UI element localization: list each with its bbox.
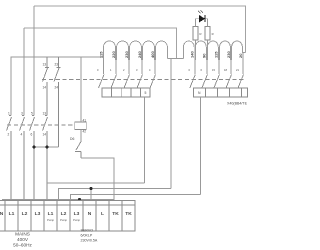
right winding tap value labels — [190, 51, 243, 58]
svg-text:115: 115 — [214, 51, 219, 58]
wire LED cathode to R2 top — [205, 19, 208, 27]
pin labels aux box 41 42 — [83, 119, 87, 134]
wire W2 junction drop to terminals — [59, 189, 172, 202]
selector S2 contact boxes — [194, 88, 248, 97]
svg-text:18: 18 — [224, 68, 227, 72]
junction dot W2 branch — [90, 187, 93, 190]
thermal contact D6 — [75, 141, 81, 158]
svg-text:1: 1 — [8, 112, 10, 116]
svg-text:220: 220 — [111, 51, 116, 58]
pin labels contactor — [43, 63, 59, 90]
svg-text:L1: L1 — [9, 211, 15, 217]
svg-text:TK: TK — [112, 211, 119, 217]
svg-text:24: 24 — [55, 86, 59, 90]
svg-text:41: 41 — [83, 119, 87, 123]
wire pilot branch x81 lower — [80, 129, 82, 141]
svg-text:15: 15 — [212, 68, 215, 72]
svg-text:50–60Hz: 50–60Hz — [13, 243, 32, 248]
wire winding junction — [167, 58, 183, 60]
svg-text:230: 230 — [226, 51, 231, 58]
svg-text:21: 21 — [236, 68, 239, 72]
LED H1 — [198, 10, 205, 22]
svg-text:R: R — [212, 32, 214, 36]
svg-text:L3: L3 — [35, 211, 41, 217]
terminal strip X1 rail — [0, 201, 135, 206]
left winding tap value labels — [99, 51, 156, 58]
svg-text:N: N — [0, 211, 4, 217]
svg-text:3: 3 — [21, 112, 23, 116]
svg-text:20: 20 — [238, 53, 243, 58]
svg-text:Pump: Pump — [60, 218, 67, 222]
wire pilot branch x81 upper — [80, 57, 82, 122]
wire W4 mains N bond — [3, 199, 115, 201]
svg-text:L2: L2 — [61, 211, 67, 217]
main switch Q1 pole 3-4 — [20, 116, 25, 202]
label MAINS 400V 50-60Hz — [13, 232, 32, 248]
selector S1 tap stubs — [104, 60, 156, 74]
svg-text:X40(BB4/TE: X40(BB4/TE — [227, 102, 248, 106]
svg-text:D6: D6 — [70, 137, 74, 141]
svg-text:N: N — [198, 91, 201, 95]
main switch Q1 pole 1-2 — [7, 116, 12, 202]
label SERVO supply — [81, 229, 98, 243]
svg-text:L3: L3 — [74, 211, 80, 217]
wire R1 top to LED anode — [195, 19, 199, 27]
svg-text:L: L — [101, 211, 104, 217]
svg-text:90: 90 — [202, 53, 207, 58]
svg-text:N: N — [88, 211, 92, 217]
svg-text:4: 4 — [21, 133, 23, 137]
terminal strip X1 rail ticks — [5, 201, 122, 206]
selector S1 position labels — [97, 68, 151, 72]
terminal sub labels — [47, 218, 80, 222]
resistor R2 — [205, 27, 210, 41]
svg-text:L2: L2 — [22, 211, 28, 217]
wire stub contactor bottoms to pole drops — [34, 146, 59, 148]
svg-text:230: 230 — [124, 51, 129, 58]
svg-text:400: 400 — [150, 51, 155, 58]
svg-text:5: 5 — [145, 91, 147, 95]
svg-text:Pump: Pump — [47, 218, 54, 222]
junction dot (34,147) — [33, 146, 36, 149]
selector S2 position labels — [189, 68, 240, 72]
svg-text:2: 2 — [8, 133, 10, 137]
svg-text:5: 5 — [31, 112, 33, 116]
svg-text:23: 23 — [55, 63, 59, 67]
svg-text:4: 4 — [149, 68, 151, 72]
svg-text:13: 13 — [43, 112, 47, 116]
wire W1 aux to selector S1 output — [47, 182, 144, 184]
svg-text:42: 42 — [83, 130, 87, 134]
svg-text:14: 14 — [43, 86, 47, 90]
junction dot W4 branch — [78, 198, 81, 201]
svg-text:0: 0 — [189, 68, 191, 72]
svg-text:2: 2 — [123, 68, 125, 72]
wire L2 pole drop — [23, 28, 25, 116]
svg-text:6: 6 — [201, 68, 203, 72]
svg-text:0: 0 — [97, 68, 99, 72]
transformer T1 right winding — [183, 41, 245, 60]
svg-text:1: 1 — [110, 68, 112, 72]
svg-text:230V/0.5A: 230V/0.5A — [81, 239, 98, 243]
svg-text:400V: 400V — [17, 237, 29, 242]
selector S1 contact boxes — [102, 88, 150, 97]
svg-text:13: 13 — [43, 63, 47, 67]
pole pin labels main switch — [8, 112, 47, 137]
wire B (second bus from L2 pole to winding junction) — [24, 28, 177, 59]
svg-text:140: 140 — [190, 51, 195, 58]
contactor K1 pole 13-14 — [43, 57, 50, 116]
terminal labels — [0, 211, 132, 217]
svg-text:115: 115 — [99, 51, 104, 58]
svg-text:R: R — [200, 32, 202, 36]
resistor R1 — [193, 27, 198, 41]
contactor K1 pole 23-24 — [54, 57, 61, 147]
junction dot (47,147) — [46, 146, 49, 149]
mechanical link dashed (selector linkage) — [42, 79, 244, 81]
wire L3 pole drop — [33, 6, 35, 116]
aux contact box 41-42 — [75, 122, 87, 129]
svg-text:240: 240 — [137, 51, 142, 58]
transformer T1 left winding — [104, 41, 168, 60]
wire R2 to tap — [207, 40, 209, 46]
svg-text:6/0KLP: 6/0KLP — [81, 234, 93, 238]
wire S2 output drop — [200, 97, 202, 195]
svg-text:14: 14 — [43, 133, 47, 137]
svg-text:TK: TK — [125, 211, 132, 217]
svg-text:3: 3 — [136, 68, 138, 72]
svg-text:MAINS: MAINS — [15, 232, 30, 237]
wire W2 branch to N — [90, 189, 92, 202]
selector S2 tap stubs — [195, 53, 243, 75]
svg-text:L1: L1 — [48, 211, 54, 217]
wire R1 to tap — [194, 40, 196, 46]
wire S1 output drop — [143, 97, 145, 183]
svg-text:SERVO: SERVO — [81, 229, 94, 233]
svg-text:Pump: Pump — [73, 218, 80, 222]
wire junction drop x171 — [170, 59, 172, 189]
wire thermal to TK terminal — [81, 158, 114, 201]
wire A (top bus from L3 pole to right winding end) — [34, 6, 246, 53]
wire W4 branch drop — [79, 199, 81, 201]
main switch Q1 pole 5-6 — [30, 116, 35, 202]
selector S2 blades — [190, 75, 244, 89]
main switch mechanical link dashed — [7, 124, 75, 126]
svg-text:6: 6 — [31, 133, 33, 137]
wire W3 S2 output to terminals — [71, 195, 201, 202]
main switch Q1 aux pole 13-14 — [43, 116, 48, 202]
terminal cells row — [0, 205, 135, 231]
selector S1 blades — [99, 75, 156, 89]
wire C (bus from L1 pole to left winding start) — [11, 57, 104, 116]
